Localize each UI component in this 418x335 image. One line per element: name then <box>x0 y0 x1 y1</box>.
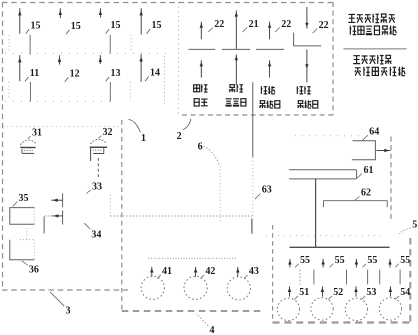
text to fire alarm controller control line line3 <box>353 56 360 64</box>
wall line for flow arrows <box>62 193 64 207</box>
svg-text:34: 34 <box>91 230 101 241</box>
dashed vertical link to box5 <box>390 137 392 220</box>
svg-text:55: 55 <box>400 255 410 266</box>
discharge arrow 55 #1 <box>289 259 291 268</box>
dotted guide line row1 left <box>8 35 10 53</box>
flow arrow 34 <box>52 215 62 217</box>
svg-text:43: 43 <box>249 266 259 277</box>
signal column 1 upper arrow <box>200 22 202 40</box>
main supply vertical pipe <box>315 179 317 247</box>
sprinkler head 32 dome <box>90 139 106 144</box>
svg-text:3: 3 <box>66 306 71 317</box>
riser arrow col3 row1 (15) <box>99 8 101 17</box>
pump inlet arrow above pump 43 <box>237 267 239 277</box>
bracket 62 <box>324 201 388 208</box>
discharge arrow 55 #4 <box>389 259 391 268</box>
svg-text:22: 22 <box>319 20 329 31</box>
text line2 <box>350 26 357 35</box>
svg-text:35: 35 <box>19 193 29 204</box>
riser line below 13 <box>109 82 111 102</box>
svg-text:12: 12 <box>70 68 80 79</box>
svg-text:55: 55 <box>335 255 345 266</box>
pump inlet arrow above pump 54 <box>389 286 391 296</box>
suction header dotted line <box>148 257 237 259</box>
supply manifold line <box>290 246 390 248</box>
pump inlet arrow above pump 52 <box>321 286 323 296</box>
discharge arrow 55 #2 <box>322 259 324 268</box>
separator line under signal bus text <box>343 48 406 50</box>
riser line below 15c <box>109 35 111 54</box>
arrow from box 64 <box>377 150 391 152</box>
tank box 36 <box>10 240 35 260</box>
box 2 right dashed border <box>332 2 334 115</box>
text penlin <box>261 86 267 94</box>
dotted sensing vertical <box>109 195 111 216</box>
sprinkler head 32 body <box>90 146 107 148</box>
svg-text:32: 32 <box>103 127 113 138</box>
svg-text:15: 15 <box>152 20 162 31</box>
pump inlet arrow above pump 51 <box>289 286 291 296</box>
dotted guide line row2 left <box>8 82 10 100</box>
svg-text:31: 31 <box>32 127 42 138</box>
pump inlet arrow above pump 53 <box>355 286 357 296</box>
svg-text:14: 14 <box>150 68 160 79</box>
drain line below arrow 34 <box>43 216 45 233</box>
signal column 3 terminal line <box>256 48 284 50</box>
tank box 35 <box>10 208 35 225</box>
svg-text:1: 1 <box>141 133 146 144</box>
drop pipe below sprinkler 32 <box>97 158 99 177</box>
pressure switch stub below junction <box>251 219 253 234</box>
riser arrow col3 row2 (13) <box>99 55 101 64</box>
dotted guide line row1 right <box>130 35 132 53</box>
signal column 3 upper arrow <box>269 22 271 40</box>
signal line 6 dotted vertical <box>219 166 221 222</box>
pipe stub b <box>313 270 315 285</box>
pipe stub f <box>399 270 401 285</box>
sparse dotted floor line 2 <box>5 100 110 102</box>
pipe stub e <box>379 270 381 285</box>
svg-text:42: 42 <box>205 266 215 277</box>
signal column 2 long up arrow <box>235 10 237 48</box>
dotted guide line row2 far right <box>164 56 166 104</box>
pipe stub c <box>346 270 348 285</box>
signal column 1 terminal line <box>189 48 216 50</box>
svg-text:41: 41 <box>162 266 172 277</box>
svg-text:55: 55 <box>300 255 310 266</box>
dotted sensing line to pressure switch <box>110 215 253 217</box>
svg-text:36: 36 <box>29 265 39 276</box>
pump inlet arrow above pump 41 <box>151 267 153 277</box>
flow arrow 33 <box>51 199 62 201</box>
riser arrow col2 row1 (15) <box>59 8 61 18</box>
outer dashed enclosure box bottom-left edge <box>2 289 128 291</box>
box 5 right dashed border <box>409 238 411 323</box>
svg-text:62: 62 <box>361 188 371 199</box>
svg-text:15: 15 <box>71 21 81 32</box>
faint dotted link line <box>295 135 360 137</box>
riser arrow col4 row1 (15) <box>140 8 142 34</box>
svg-text:52: 52 <box>333 287 343 298</box>
outer dashed enclosure box top edge <box>2 2 334 4</box>
box 5 top faint dotted border <box>266 235 384 237</box>
svg-text:4: 4 <box>210 325 215 335</box>
pump circle 53 <box>345 298 367 320</box>
pump inlet arrow above pump 42 <box>195 267 197 277</box>
svg-text:2: 2 <box>177 131 182 142</box>
pipe stub d <box>367 270 369 285</box>
riser arrow col1 row1 (15) <box>19 8 21 34</box>
sparse dotted floor line 1 <box>5 52 168 54</box>
signal column 4 upper down arrow <box>306 7 308 29</box>
box 4 bottom dashed border <box>122 310 262 312</box>
text xiaofang <box>297 86 303 94</box>
dotted tail of arrow 34 <box>45 215 52 217</box>
pump circle 41 <box>141 276 164 299</box>
svg-text:51: 51 <box>299 287 309 298</box>
svg-text:64: 64 <box>369 126 379 137</box>
signal column 4 corner tick <box>293 33 295 46</box>
signal column 3 lower arrow <box>269 60 271 77</box>
svg-text:15: 15 <box>111 20 121 31</box>
text to fire alarm controller signal bus line1 <box>348 14 355 22</box>
signal column 2 lower arrow <box>235 54 237 85</box>
box 64 flow switch <box>352 141 376 160</box>
signal column 4 lower down arrow <box>306 50 308 71</box>
svg-text:33: 33 <box>92 181 102 192</box>
riser line below 15a <box>29 35 31 55</box>
signal column 1 lower arrow <box>200 60 202 77</box>
box 2 left dotted border <box>178 2 180 115</box>
svg-text:21: 21 <box>249 19 259 30</box>
riser arrow col2 row2 (12) <box>59 55 61 64</box>
signal column 4 terminal line <box>294 45 322 47</box>
riser arrow col1 row2 (11) <box>19 55 21 81</box>
svg-text:5: 5 <box>412 219 417 230</box>
pump circle 54 <box>379 298 401 320</box>
svg-text:22: 22 <box>214 19 224 30</box>
svg-text:11: 11 <box>30 68 39 79</box>
text dianci fakai <box>194 85 200 92</box>
sparse dotted floor line 3 <box>3 126 120 128</box>
pump circle 52 <box>311 298 333 320</box>
pressure switch line 63 vertical <box>252 82 254 157</box>
box 4 left dashed border <box>121 120 123 311</box>
svg-text:22: 22 <box>281 19 291 30</box>
pump circle 42 <box>184 276 207 299</box>
header bar 61 <box>289 170 357 179</box>
pump circle 43 <box>227 277 250 300</box>
svg-text:63: 63 <box>262 184 272 195</box>
svg-text:15: 15 <box>31 20 41 31</box>
svg-text:13: 13 <box>111 68 121 79</box>
riser line below 11 <box>29 82 31 102</box>
svg-text:54: 54 <box>400 287 410 298</box>
box 5 bottom dashed border <box>273 321 410 323</box>
discharge arrow 55 #3 <box>355 259 357 268</box>
sprinkler head 31 dome <box>20 140 36 145</box>
signal column 2 terminal line <box>222 48 250 50</box>
box 2 bottom dashed border <box>182 114 333 116</box>
text beng gu <box>229 85 235 92</box>
svg-text:6: 6 <box>198 142 203 153</box>
dotted guide line row2 right <box>130 82 132 101</box>
pipe stub dotted <box>299 270 301 285</box>
sprinkler head 31 body <box>20 147 35 149</box>
text line4 <box>355 68 361 76</box>
outer dashed enclosure box left edge <box>2 2 4 290</box>
svg-text:55: 55 <box>367 255 377 266</box>
svg-text:53: 53 <box>366 287 376 298</box>
pump circle 51 <box>277 298 299 320</box>
riser arrow col4 row2 (14) <box>140 54 142 82</box>
svg-text:61: 61 <box>364 165 374 176</box>
dotted connector between 35 and 36 <box>26 228 28 241</box>
box 5 left dashed border <box>272 225 274 323</box>
